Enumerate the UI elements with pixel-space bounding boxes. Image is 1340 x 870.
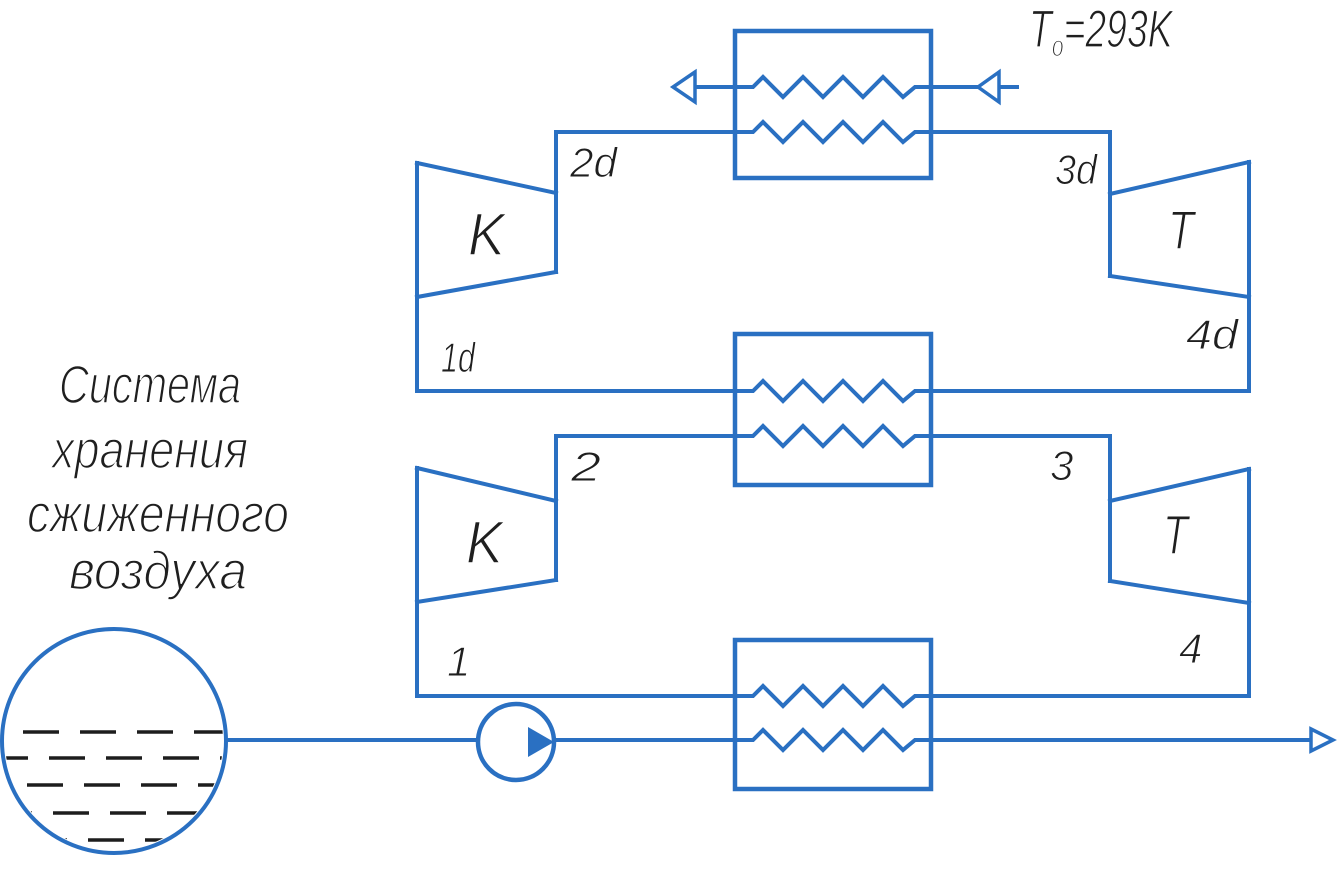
- svg-text:3d: 3d: [1055, 146, 1098, 193]
- wire: node 1 line through HX3 upper coil (y=696): [417, 686, 1249, 706]
- svg-text:To=293K: To=293K: [1029, 0, 1175, 63]
- svg-text:K: K: [466, 509, 506, 576]
- svg-text:4: 4: [1179, 625, 1202, 672]
- label T0=293K: [1029, 0, 1175, 63]
- compressor K1 body: [417, 132, 556, 391]
- svg-text:T: T: [1163, 503, 1191, 566]
- svg-text:2d: 2d: [569, 139, 619, 186]
- cooling water inlet arrow (right): [978, 72, 999, 102]
- wire: node 1d line through HX2 upper coil (y=391): [417, 381, 1249, 401]
- svg-text:хранения: хранения: [50, 420, 248, 480]
- pump P1: [478, 704, 554, 780]
- svg-text:1: 1: [447, 638, 470, 685]
- svg-text:4d: 4d: [1186, 311, 1240, 358]
- heat exchanger HX3 box: [735, 640, 931, 789]
- tank liquid level dashes: [0, 732, 228, 840]
- cooling water outlet arrow (left): [673, 72, 695, 102]
- outlet arrow: [1311, 729, 1333, 751]
- wire: pump through heat exchanger HX3 lower coil to outlet: [553, 730, 1311, 750]
- svg-text:воздуха: воздуха: [69, 541, 247, 601]
- wire: node 2 line through HX2 lower coil (y=436): [556, 426, 1110, 446]
- svg-text:K: K: [468, 201, 508, 268]
- wire: cooling water inlet stub: [999, 85, 1019, 89]
- turbine T1 body: [1110, 132, 1249, 391]
- heat exchanger HX1 box: [735, 31, 931, 178]
- heat exchanger HX2 box: [735, 334, 931, 485]
- svg-text:1d: 1d: [441, 334, 476, 381]
- wire: tank to pump: [226, 738, 480, 742]
- svg-text:2: 2: [570, 443, 601, 490]
- svg-text:3: 3: [1050, 442, 1073, 489]
- compressor K2 body: [417, 436, 556, 696]
- turbine T2 body: [1110, 436, 1249, 696]
- label: storage system text: [27, 355, 289, 601]
- wire: cooling water line through HX1 upper coil (y=87): [695, 77, 978, 97]
- wire: node 2d line through HX1 lower coil (y=132): [556, 122, 1110, 142]
- svg-text:T: T: [1168, 199, 1197, 261]
- tank (liquefied air storage vessel): [2, 629, 226, 853]
- svg-text:сжиженного: сжиженного: [27, 484, 289, 544]
- svg-text:Система: Система: [59, 355, 241, 415]
